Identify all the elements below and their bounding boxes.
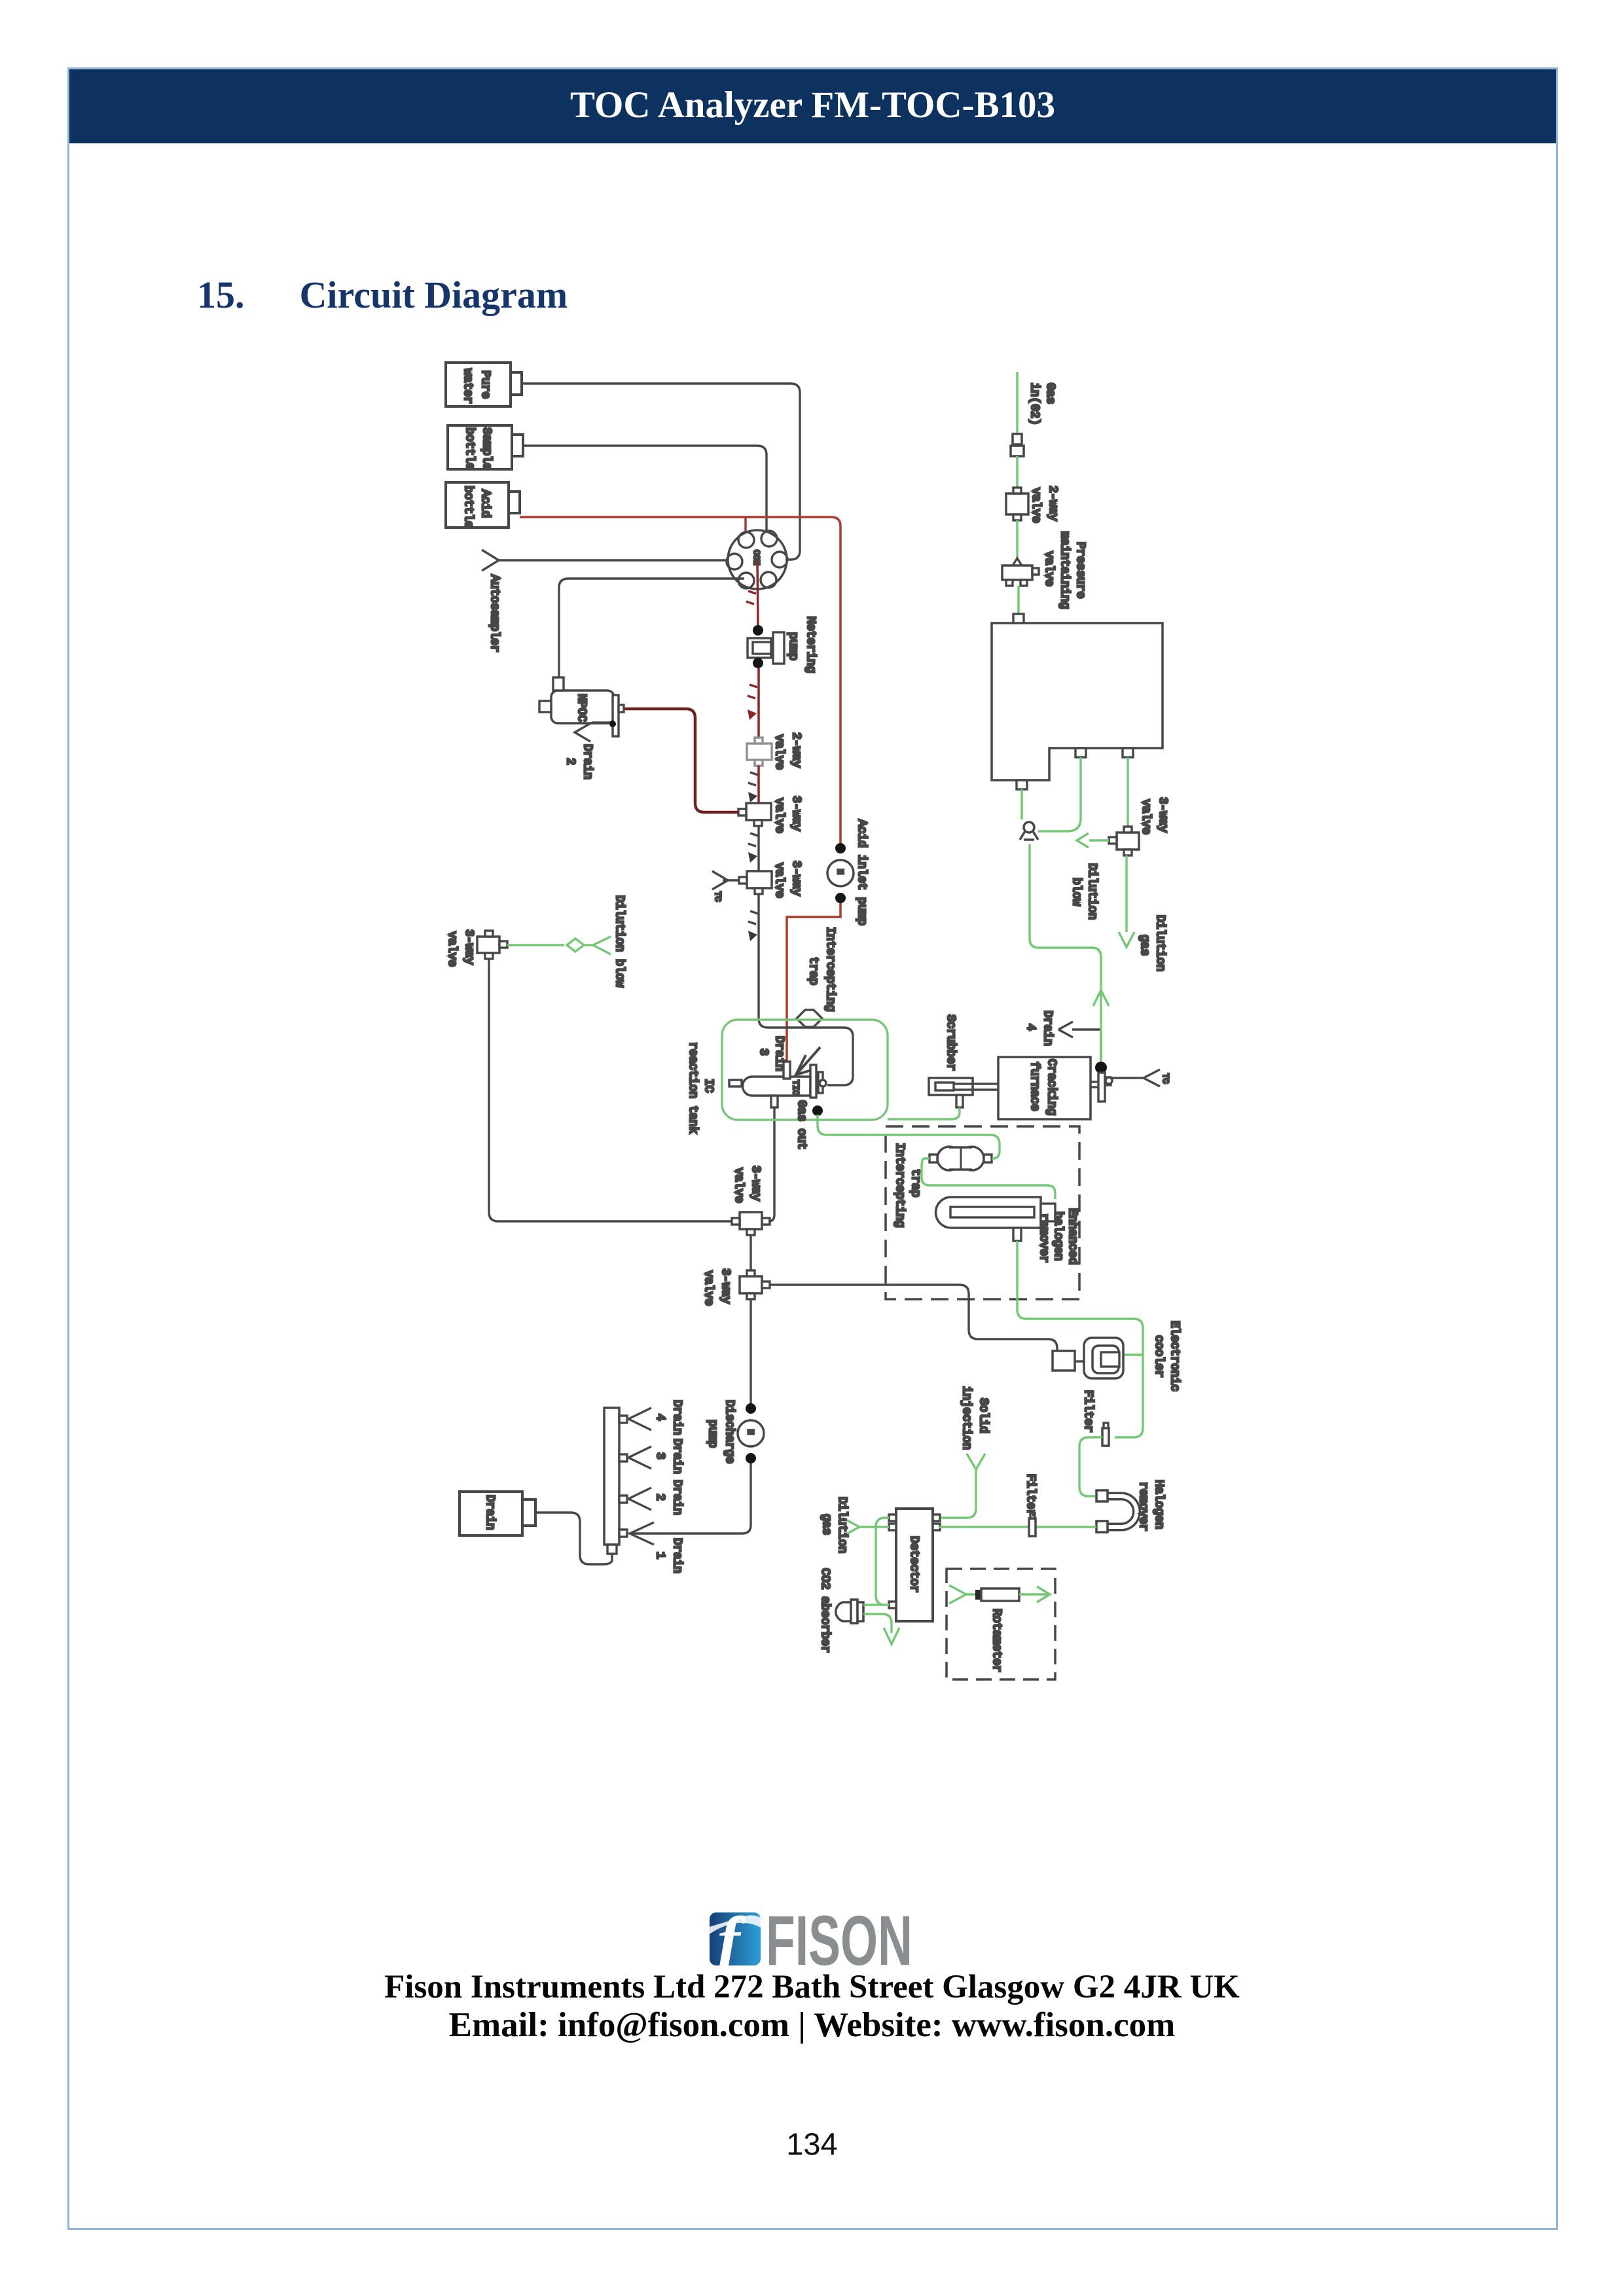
header band: TOC Analyzer FM-TOC-B103 bbox=[69, 69, 1556, 143]
detector bbox=[896, 1509, 933, 1621]
main green wire from Y to furnace bbox=[1030, 844, 1101, 1062]
svg-text:water: water bbox=[461, 368, 474, 404]
svg-text:Dilution: Dilution bbox=[1085, 863, 1098, 920]
acid inlet pump bbox=[827, 860, 854, 886]
svg-text:trap: trap bbox=[806, 957, 820, 985]
svg-text:furnace: furnace bbox=[1028, 1062, 1041, 1111]
FISON logo swoosh bbox=[710, 1915, 763, 1934]
drain 4 fork arrow bbox=[628, 1408, 651, 1430]
sample bottle bbox=[448, 425, 512, 469]
flow dashes red bbox=[746, 591, 756, 604]
wire valve mid to valve C bbox=[749, 1235, 751, 1276]
svg-text:Drain: Drain bbox=[581, 744, 594, 780]
svg-text:valve: valve bbox=[1029, 488, 1042, 523]
svg-text:NPOC: NPOC bbox=[575, 694, 588, 722]
wire housing to Y (green) bbox=[1020, 789, 1022, 819]
svg-text:2-way: 2-way bbox=[1046, 486, 1059, 521]
wire red branch to rotary valve bbox=[744, 517, 747, 533]
dilution gas fork (green) bbox=[842, 1518, 889, 1536]
svg-text:halogen: halogen bbox=[1051, 1211, 1064, 1261]
inline connector bbox=[1013, 434, 1022, 444]
green up arrowhead bbox=[1093, 990, 1109, 1006]
metering pump lower junction bbox=[753, 658, 763, 668]
TC arrow right bbox=[1112, 1077, 1144, 1079]
wire valve C down to discharge pump bbox=[749, 1299, 751, 1405]
svg-text:3-way: 3-way bbox=[789, 861, 803, 896]
wire autosampler to valve bbox=[499, 559, 729, 561]
wire 2-way valve to 3-way valve A (red) bbox=[757, 766, 760, 803]
TIC arrow into tank bbox=[797, 1047, 820, 1074]
scrubber bbox=[929, 1078, 973, 1095]
svg-text:bottle: bottle bbox=[461, 486, 475, 528]
drain 4 arrow bbox=[1072, 1030, 1101, 1059]
svg-text:Gas: Gas bbox=[1043, 383, 1056, 404]
svg-text:Pure: Pure bbox=[478, 370, 492, 399]
green outlet arrow below detector bbox=[884, 1628, 899, 1644]
detector green plumbing bbox=[876, 1518, 889, 1605]
wire pure water to valve bbox=[522, 384, 800, 560]
wire NPOC outlet (maroon) bbox=[624, 709, 738, 812]
svg-text:Drain: Drain bbox=[670, 1538, 683, 1573]
drain 2 arrow bbox=[592, 721, 610, 723]
wire acid bottle to acid pump (red) bbox=[520, 517, 840, 844]
wire valve D down (green) bbox=[1125, 855, 1127, 932]
acid bottle bbox=[446, 482, 509, 528]
intercepting trap lens bbox=[797, 1010, 822, 1027]
svg-text:2: 2 bbox=[653, 1494, 666, 1501]
svg-text:Sample: Sample bbox=[480, 427, 493, 470]
wire trap 2 to halogen cylinder (green) bbox=[922, 1158, 1055, 1199]
dilution blow nozzle (green) bbox=[567, 939, 593, 952]
wire pump to 2-way valve (red) bbox=[757, 668, 760, 744]
svg-text:3-way: 3-way bbox=[749, 1166, 762, 1201]
svg-text:3-way: 3-way bbox=[462, 929, 475, 965]
svg-text:remover: remover bbox=[1037, 1213, 1050, 1263]
wire valve C to electronic cooler bbox=[770, 1285, 1057, 1351]
3-way valve D bbox=[1117, 833, 1139, 850]
svg-text:blow: blow bbox=[1070, 878, 1083, 906]
svg-text:4: 4 bbox=[1024, 1024, 1037, 1031]
wire drain bottle to manifold bbox=[535, 1513, 612, 1564]
pressure maintaining valve bbox=[1013, 558, 1022, 565]
discharge pump upper dot bbox=[746, 1403, 756, 1414]
svg-text:Intercepting: Intercepting bbox=[893, 1143, 906, 1228]
svg-text:valve: valve bbox=[1139, 799, 1152, 834]
reaction tank vessel bbox=[743, 1077, 811, 1096]
svg-text:Cracking: Cracking bbox=[1045, 1059, 1058, 1115]
svg-text:Enhanced: Enhanced bbox=[1066, 1208, 1079, 1265]
wire scrubber to tank (green) bbox=[888, 1107, 960, 1119]
svg-text:Filter: Filter bbox=[1024, 1474, 1037, 1516]
svg-text:valve: valve bbox=[702, 1270, 715, 1306]
svg-text:remover: remover bbox=[1136, 1482, 1149, 1532]
svg-text:3-way: 3-way bbox=[1156, 797, 1169, 833]
wire filter1 to halogen remover (green) bbox=[1079, 1437, 1102, 1496]
svg-text:valve: valve bbox=[445, 931, 458, 967]
green left arrow at valve D bbox=[1089, 839, 1109, 841]
rotameter body bbox=[975, 1590, 981, 1600]
svg-text:Drain: Drain bbox=[670, 1480, 683, 1515]
svg-text:valve: valve bbox=[732, 1168, 745, 1203]
cracking furnace bbox=[998, 1057, 1091, 1119]
furnace side connector bbox=[1091, 1081, 1098, 1083]
enhanced halogen remover dashed box bbox=[886, 1126, 1079, 1299]
svg-text:TC: TC bbox=[1161, 1073, 1170, 1084]
svg-text:trap: trap bbox=[909, 1169, 922, 1197]
svg-text:Discharge: Discharge bbox=[723, 1400, 736, 1463]
IC reaction tank enclosure (green) bbox=[722, 1020, 888, 1120]
flow dashes black arrow bbox=[748, 772, 758, 785]
FISON logo square bbox=[710, 1912, 761, 1965]
wire valve to pressure maintaining valve (green) bbox=[1016, 520, 1018, 564]
wire mid port curve to Y (green) bbox=[1038, 757, 1081, 831]
svg-text:cooler: cooler bbox=[1152, 1335, 1165, 1378]
svg-text:Autosampler: Autosampler bbox=[488, 575, 501, 653]
drain 2 fork arrow bbox=[628, 1488, 651, 1510]
metering pump body bbox=[748, 638, 771, 658]
svg-text:Drain: Drain bbox=[670, 1400, 683, 1435]
svg-text:M: M bbox=[835, 869, 845, 874]
svg-text:3: 3 bbox=[757, 1049, 770, 1056]
gas in wire (green) bbox=[1016, 372, 1018, 434]
svg-text:TC: TC bbox=[713, 891, 723, 902]
svg-text:gas: gas bbox=[1138, 935, 1151, 956]
wire connector to 2-way valve (green) bbox=[1016, 456, 1018, 488]
flow dashes red arrow bbox=[748, 685, 757, 698]
drain 1 arrow bbox=[630, 1522, 654, 1545]
rotary valve body bbox=[728, 530, 787, 589]
wire to furnace housing (green) bbox=[1017, 586, 1019, 614]
svg-text:Dilution blow: Dilution blow bbox=[613, 895, 626, 988]
svg-text:Intercepting: Intercepting bbox=[823, 927, 837, 1012]
wire valve A to valve B bbox=[757, 826, 759, 871]
wire pump to drain 1 bbox=[630, 1463, 751, 1534]
furnace housing box bbox=[992, 623, 1163, 780]
rotameter fork in (green) bbox=[949, 1585, 980, 1604]
flow dashes bbox=[748, 911, 758, 924]
rotary valve ports bbox=[738, 532, 754, 548]
discharge pump lower dot bbox=[746, 1453, 756, 1463]
3-way valve B bbox=[747, 871, 772, 888]
rotameter dashed box bbox=[947, 1569, 1055, 1679]
dilution gas down arrowhead (green) bbox=[1119, 932, 1134, 947]
svg-text:Detector: Detector bbox=[907, 1536, 920, 1592]
svg-text:Solid: Solid bbox=[977, 1398, 990, 1433]
svg-text:IC: IC bbox=[702, 1079, 715, 1093]
discharge pump bbox=[738, 1420, 764, 1446]
svg-text:2-way: 2-way bbox=[789, 732, 803, 768]
svg-text:3-way: 3-way bbox=[789, 796, 803, 831]
2-way valve bbox=[747, 744, 772, 760]
svg-text:valve: valve bbox=[1042, 551, 1055, 586]
halogen remover U tube bbox=[1108, 1496, 1137, 1527]
svg-text:valve: valve bbox=[772, 863, 785, 898]
autosampler arrow bbox=[482, 550, 499, 571]
electronic cooler bbox=[1084, 1338, 1123, 1378]
svg-text:2: 2 bbox=[564, 758, 577, 765]
footer address line 2 bbox=[0, 2005, 1624, 2045]
wire sample bottle to valve bbox=[523, 446, 767, 535]
wire right port to 3-way valve D (green) bbox=[1127, 757, 1128, 827]
TC arrow at valve B bbox=[723, 879, 739, 881]
filter 1 bbox=[1102, 1428, 1109, 1446]
svg-text:3-way: 3-way bbox=[719, 1268, 732, 1304]
metering pump piston bbox=[773, 632, 784, 664]
wire valve B down to reaction tank bbox=[759, 894, 853, 1085]
svg-text:1: 1 bbox=[653, 1552, 666, 1559]
intercepting trap 2 bbox=[937, 1147, 961, 1170]
svg-text:M: M bbox=[746, 1429, 755, 1435]
wire gas out to trap 2 (green) bbox=[818, 1115, 1000, 1158]
svg-text:valve: valve bbox=[772, 798, 785, 833]
2-way valve top right bbox=[1006, 493, 1028, 514]
svg-text:reaction tank: reaction tank bbox=[686, 1042, 699, 1134]
svg-text:Dilution: Dilution bbox=[1153, 915, 1166, 971]
svg-text:Pressure: Pressure bbox=[1074, 542, 1087, 598]
svg-text:maintaining: maintaining bbox=[1058, 531, 1071, 609]
acid inlet pump upper dot bbox=[835, 843, 846, 853]
svg-text:Rotameter: Rotameter bbox=[990, 1609, 1003, 1672]
halogen remover cylinder bbox=[935, 1197, 1041, 1228]
svg-text:bottle: bottle bbox=[463, 427, 476, 470]
footer address line 1 bbox=[0, 1968, 1624, 2006]
wire acid pump to reaction tank (red) bbox=[787, 903, 840, 1063]
green stub into cooler bbox=[1125, 1354, 1143, 1355]
svg-text:valve: valve bbox=[772, 734, 785, 770]
wire tank bottom to valve mid bbox=[768, 1107, 774, 1221]
gas out junction dot bbox=[812, 1105, 823, 1116]
svg-text:Gas out: Gas out bbox=[795, 1100, 808, 1150]
acid inlet pump lower dot bbox=[835, 893, 846, 903]
svg-text:pump: pump bbox=[786, 632, 799, 660]
section heading bbox=[197, 273, 568, 317]
svg-text:Filter: Filter bbox=[1081, 1390, 1094, 1433]
svg-text:Dilution: Dilution bbox=[835, 1497, 848, 1553]
svg-text:pump: pump bbox=[706, 1420, 719, 1448]
wire halogen remover to detector (green) bbox=[939, 1526, 1096, 1528]
svg-text:Drain: Drain bbox=[670, 1439, 683, 1474]
absorber green lines bbox=[863, 1605, 892, 1633]
svg-text:TIC: TIC bbox=[791, 1080, 801, 1096]
NPOC vessel bbox=[551, 691, 614, 723]
drain 3 fork arrow bbox=[628, 1446, 651, 1469]
svg-text:Metering: Metering bbox=[804, 617, 817, 673]
wire valve center to metering pump (red) bbox=[757, 562, 758, 626]
page number bbox=[0, 2126, 1624, 2162]
housing ports bbox=[1013, 614, 1024, 623]
svg-text:Drain: Drain bbox=[1041, 1011, 1054, 1046]
drain bottle bbox=[460, 1492, 522, 1535]
svg-text:Acid inlet pump: Acid inlet pump bbox=[855, 819, 868, 925]
furnace junction dot bbox=[1095, 1062, 1107, 1073]
svg-text:4: 4 bbox=[653, 1414, 666, 1421]
wire valve to NPOC bbox=[559, 579, 744, 677]
3-way valve C bbox=[740, 1276, 762, 1293]
svg-text:injection: injection bbox=[960, 1386, 973, 1450]
svg-text:Scrubber: Scrubber bbox=[944, 1014, 957, 1071]
svg-text:Halogen: Halogen bbox=[1152, 1480, 1165, 1530]
dilution blow fork (green) bbox=[593, 937, 611, 954]
CO2 absorber bbox=[836, 1602, 851, 1621]
metering pump upper junction bbox=[753, 625, 763, 636]
solid injection fork (green) bbox=[941, 1454, 985, 1518]
svg-text:Drain: Drain bbox=[483, 1495, 496, 1530]
svg-text:Acid: Acid bbox=[478, 490, 492, 518]
pure water bottle bbox=[446, 363, 511, 406]
svg-text:Electronic: Electronic bbox=[1168, 1321, 1181, 1391]
rotameter out arrow (green) bbox=[1019, 1587, 1050, 1602]
dilution blow wire (green) bbox=[507, 944, 564, 946]
svg-text:Drain: Drain bbox=[772, 1036, 785, 1071]
drain manifold bar bbox=[604, 1408, 619, 1545]
filter 2 bbox=[1029, 1518, 1036, 1536]
flow dashes bbox=[748, 833, 758, 846]
3-way valve A bbox=[746, 803, 771, 820]
Y connector bbox=[1024, 822, 1034, 833]
svg-text:in(02): in(02) bbox=[1028, 383, 1041, 425]
wire cylinder to cooler (green) bbox=[1017, 1241, 1143, 1437]
wire left valve down and across bbox=[489, 959, 732, 1221]
svg-text:CO2 absorber: CO2 absorber bbox=[818, 1568, 831, 1653]
3-way valve left bbox=[477, 937, 499, 953]
svg-text:gas: gas bbox=[820, 1514, 833, 1535]
svg-text:3: 3 bbox=[653, 1452, 666, 1460]
3-way valve mid bbox=[740, 1212, 762, 1229]
